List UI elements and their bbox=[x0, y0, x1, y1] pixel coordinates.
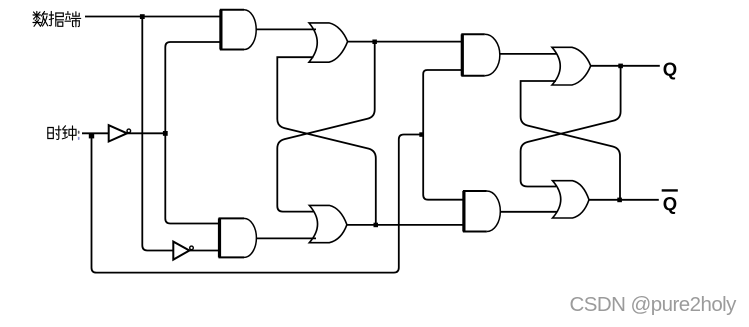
svg-text:CSDN @pure2holy: CSDN @pure2holy bbox=[570, 293, 738, 316]
svg-text:Q: Q bbox=[663, 193, 677, 214]
svg-text:Q: Q bbox=[663, 59, 677, 80]
